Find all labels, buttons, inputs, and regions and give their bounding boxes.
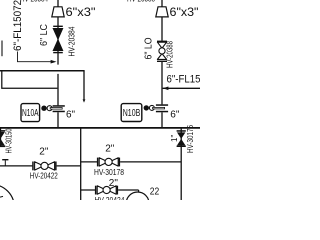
svg-text:6"x3": 6"x3" (66, 5, 96, 19)
wire: pipe to HV-20422 (0, 165, 81, 167)
svg-text:6"-FL15072-SC: 6"-FL15072-SC (12, 0, 24, 51)
svg-text:2": 2" (39, 147, 49, 158)
wire: vertical pipe right riser (161, 0, 163, 128)
wire: structure step left (2, 71, 58, 89)
svg-text:2": 2" (105, 143, 115, 154)
wire: vertical pipe 6" line, left riser upper segment (57, 0, 59, 128)
spectacle blind closed circle (right) (144, 105, 149, 110)
short cut-off line at left border (1, 41, 3, 57)
spectacle blind closed circle (left) (41, 106, 46, 111)
valve HV-20388 flange bottom (157, 61, 167, 62)
svg-text:HV-20384: HV-20384 (68, 26, 77, 56)
spectacle blind open circle (left) (47, 106, 52, 111)
svg-text:HV-30176: HV-30176 (186, 125, 195, 153)
vessel top line (0, 127, 200, 129)
arrowhead left on right header (163, 87, 169, 91)
spectacle blind open circle (right) (149, 105, 154, 110)
vent stub with cap (4, 160, 6, 166)
tick inside bottom-left circle (0, 195, 3, 198)
svg-text:6": 6" (66, 109, 76, 120)
wire: bottom header vertical (80, 128, 82, 200)
svg-text:HV-30150: HV-30150 (5, 128, 14, 153)
blind spacer strip (right) (153, 107, 165, 109)
svg-text:N10A: N10A (22, 108, 39, 119)
wire: right drain pipe vertical (180, 128, 182, 200)
flange pair on right riser (156, 104, 168, 106)
svg-text:HV-20388: HV-20388 (127, 0, 155, 3)
valve HV-30150 (black, at left edge, half visible) (0, 130, 5, 131)
reducer 6"x3" left (52, 7, 64, 17)
svg-text:HV-20422: HV-20422 (30, 171, 58, 180)
wire: pipe to HV-20424 (81, 190, 139, 193)
svg-text:2": 2" (109, 178, 119, 189)
svg-text:6" LC: 6" LC (39, 24, 50, 46)
valve HV-20388 (gate valve locked open, with ball) (157, 42, 166, 59)
svg-text:N10B: N10B (123, 108, 141, 119)
svg-text:6" LO: 6" LO (144, 37, 155, 59)
svg-text:1": 1" (170, 135, 179, 142)
valve HV-20424 (ball valve) (95, 186, 97, 195)
equipment circle bottom right (partial) (126, 192, 149, 215)
valve HV-20384 flange top (53, 26, 63, 27)
blind spacer strip (left) (50, 108, 62, 110)
wire: header line right with flow arrow (163, 87, 200, 89)
valve HV-20422 (ball valve) (32, 162, 34, 171)
flange pair on left riser (53, 105, 65, 107)
valve HV-30176 (black 1" valve) (177, 130, 186, 132)
wire: pipe to HV-30178 (81, 161, 182, 163)
svg-text:HV-30178: HV-30178 (94, 168, 124, 177)
valve HV-20388 flange top (157, 41, 167, 42)
arrowhead of leader (51, 60, 57, 64)
valve HV-20384 (gate valve, closed/black) (53, 28, 63, 50)
equipment circle bottom left (partial) (0, 184, 14, 230)
nozzle tag box N10B (121, 104, 142, 122)
svg-text:6"x3": 6"x3" (170, 5, 199, 19)
svg-text:HV-20384: HV-20384 (20, 0, 48, 3)
svg-text:HV-20424: HV-20424 (95, 196, 125, 200)
valve HV-30178 (ball valve) (97, 158, 99, 167)
wire: structure line A horizontal (0, 70, 85, 72)
svg-text:22: 22 (150, 186, 160, 197)
nozzle tag box N10A (21, 104, 40, 122)
wire: leader line with arrow to riser (18, 52, 52, 62)
valve HV-20384 flange bottom (53, 52, 63, 53)
svg-text:6": 6" (170, 109, 180, 120)
arrowhead down at x=84 (83, 99, 86, 102)
wire: structure line A drop at x=84 (83, 71, 85, 100)
svg-text:6"-FL15073: 6"-FL15073 (167, 74, 201, 86)
svg-text:HV-20388: HV-20388 (165, 41, 174, 68)
reducer 6"x3" right (156, 7, 168, 17)
wire: left border pipe below vessel (0, 128, 2, 147)
